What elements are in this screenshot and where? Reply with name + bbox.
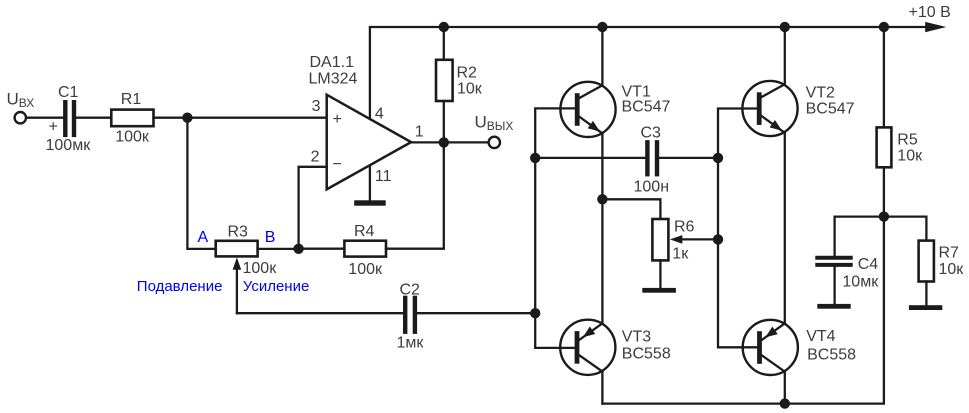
svg-text:R6: R6: [674, 219, 695, 236]
svg-text:Подавление: Подавление: [137, 278, 223, 295]
svg-text:−: −: [333, 156, 342, 173]
node junction R1/R3: [182, 113, 192, 123]
svg-text:C2: C2: [400, 281, 421, 298]
svg-text:DA1.1: DA1.1: [310, 54, 355, 71]
svg-text:R1: R1: [121, 91, 142, 108]
svg-text:R5: R5: [897, 132, 918, 149]
svg-text:R4: R4: [354, 223, 375, 240]
svg-text:A: A: [198, 229, 209, 246]
svg-text:+: +: [333, 111, 342, 128]
resistor R7: [919, 241, 934, 282]
wire +10V top rail: [370, 27, 925, 119]
ground op-amp pin 11: [354, 200, 386, 205]
svg-text:BC547: BC547: [622, 99, 671, 116]
svg-text:C4: C4: [858, 256, 879, 273]
svg-text:LM324: LM324: [309, 71, 358, 88]
potentiometer R3: [216, 241, 258, 257]
svg-text:VT2: VT2: [806, 85, 835, 102]
wire C3 right: [659, 157, 718, 159]
node junction rail-VT1 collector: [597, 22, 607, 32]
resistor R2: [443, 27, 445, 60]
wire R1 node down to R3: [187, 118, 215, 249]
svg-text:R3: R3: [228, 224, 249, 241]
resistor R4: [344, 241, 386, 257]
svg-text:R2: R2: [457, 65, 478, 82]
svg-text:+10 В: +10 В: [909, 4, 951, 21]
node junction R5/C4/R7: [879, 211, 889, 221]
op-amp DA1.1 LM324: [327, 95, 411, 190]
svg-text:BC558: BC558: [622, 345, 671, 362]
wire R4 to output node: [386, 142, 444, 248]
node junction VT4 collector rail: [780, 398, 790, 408]
node junction rail-R5: [879, 22, 889, 32]
svg-text:1: 1: [415, 124, 424, 141]
transistor VT1 BC547: [560, 82, 670, 137]
wire pin 11 to ground: [369, 167, 371, 200]
node junction C2: [530, 308, 540, 318]
svg-text:R7: R7: [939, 245, 960, 262]
svg-text:10мк: 10мк: [842, 274, 879, 291]
wire VT2 emitter to VT4 emitter: [784, 133, 786, 323]
ground R7: [909, 305, 942, 310]
svg-text:100н: 100н: [634, 178, 670, 195]
input terminal Uвх: [15, 112, 26, 123]
wire VT2/VT4 base line: [718, 109, 757, 348]
wire VT1 collector: [601, 27, 603, 85]
wire C1 to R1: [76, 117, 111, 119]
node junction rail-R2: [439, 22, 449, 32]
svg-text:1мк: 1мк: [397, 334, 425, 351]
svg-text:10к: 10к: [939, 261, 965, 278]
node junction C3/VT2 base: [713, 153, 723, 163]
svg-text:VT3: VT3: [622, 329, 651, 346]
svg-text:1к: 1к: [672, 246, 689, 263]
ground R6: [642, 288, 676, 293]
capacitor C1: [63, 102, 67, 135]
svg-text:Усиление: Усиление: [243, 278, 310, 295]
wire op-amp output: [411, 141, 488, 143]
R6 wiper arrow: [670, 235, 682, 244]
wire R3 wiper to C2: [237, 312, 403, 314]
node junction rail-VT2 collector: [780, 22, 790, 32]
wire R2 bottom to output node: [443, 101, 445, 142]
svg-text:100к: 100к: [115, 129, 150, 146]
power arrow +10 V: [925, 22, 946, 32]
svg-text:C1: C1: [58, 84, 79, 101]
wire VT1 emitter to VT3 emitter: [601, 133, 603, 323]
svg-text:BC547: BC547: [806, 101, 855, 118]
wire C3 left: [535, 157, 645, 159]
svg-text:+: +: [49, 119, 58, 136]
node junction R6 wiper: [713, 234, 723, 244]
svg-text:100мк: 100мк: [46, 137, 92, 154]
wire emitter node to R6: [602, 199, 660, 219]
wire VT4 collector to bottom rail: [784, 372, 786, 404]
transistor VT4 BC558: [743, 320, 856, 375]
wire node to R4: [299, 248, 345, 250]
R3 wiper arrow: [233, 257, 242, 269]
resistor R1: [111, 110, 153, 127]
capacitor C4: [817, 256, 850, 260]
svg-text:VT4: VT4: [806, 328, 835, 345]
node output junction: [439, 137, 449, 147]
capacitor C2: [403, 298, 407, 332]
node junction R6 branch on VT1 emitter: [597, 194, 607, 204]
output terminal Uвых: [489, 137, 500, 148]
svg-text:10к: 10к: [457, 81, 483, 98]
svg-text:10к: 10к: [897, 148, 923, 165]
svg-text:UВХ: UВХ: [7, 89, 35, 110]
svg-text:100к: 100к: [243, 260, 278, 277]
node junction R3/R4/pin2: [293, 244, 303, 254]
wire VT2 collector: [784, 27, 786, 84]
transistor VT2 BC547: [742, 81, 854, 136]
node junction C3 left: [530, 153, 540, 163]
svg-text:11: 11: [375, 168, 392, 185]
wire R6 bottom to ground: [659, 260, 661, 288]
svg-text:3: 3: [312, 98, 321, 115]
wire VT3 collector to bottom rail: [601, 372, 603, 404]
ground C4: [817, 304, 850, 309]
wire C4/R7 node: [835, 217, 927, 256]
svg-text:100к: 100к: [348, 261, 383, 278]
wire R1 to op-amp pin 3: [154, 117, 327, 119]
resistor R5: [883, 27, 885, 127]
svg-text:BC558: BC558: [807, 347, 856, 364]
svg-text:4: 4: [375, 106, 384, 123]
svg-text:C3: C3: [641, 125, 662, 142]
wire R3 right to node: [258, 248, 299, 250]
transistor VT3 BC558: [560, 320, 671, 375]
capacitor C3: [645, 142, 649, 174]
wire VT1 base / VT3 base vertical: [535, 108, 575, 348]
svg-text:UВЫХ: UВЫХ: [475, 113, 514, 134]
wire pin 2 feedback: [299, 167, 327, 249]
svg-text:B: B: [265, 229, 276, 246]
wire bottom rail: [602, 217, 884, 404]
wire C2 to feedback node line: [417, 312, 535, 314]
svg-text:2: 2: [311, 149, 320, 166]
potentiometer R6: [652, 219, 668, 260]
wire input to C1: [26, 117, 63, 119]
